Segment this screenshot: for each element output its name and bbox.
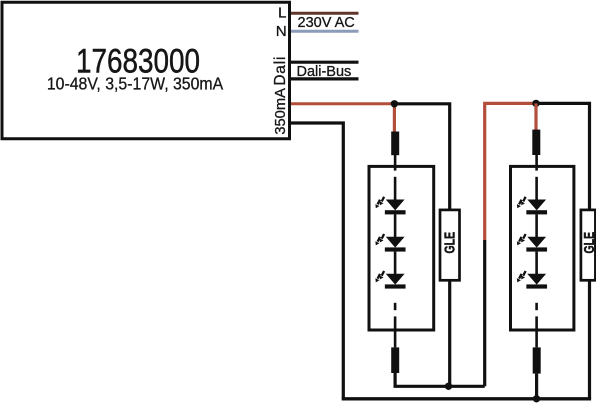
wire GLE1 bottom stub [448, 279, 451, 386]
node A junction [391, 100, 398, 107]
GLE1 component [440, 210, 460, 280]
node B junction [532, 100, 539, 107]
wire D3 to fuse F2 (dashed exit) [394, 303, 397, 310]
U1 part number label 17683000 [76, 42, 200, 80]
wire 350mA+ output (red) from U1 to node A [291, 102, 394, 105]
fuse F3 [532, 130, 540, 155]
wire series link module1 to module2 (black lower part) [483, 240, 486, 386]
wire series link module1 to module2 (red upper part) [485, 103, 536, 240]
wire node B down to fuse F3 (red) [534, 103, 537, 131]
wire Dali-Bus lower [291, 77, 359, 80]
LED driver U1 box [2, 2, 290, 139]
svg-text:GLE: GLE [580, 232, 596, 254]
svg-text:N: N [276, 23, 287, 40]
fuse F2 [391, 347, 399, 373]
wire 350mA- return (black) from U1 down to bottom bus [291, 123, 343, 399]
GLE2 component [580, 210, 596, 280]
LED D1 [375, 197, 405, 215]
LED D2 [375, 234, 405, 252]
LED module 1 box [369, 166, 434, 330]
LED D3 [375, 271, 405, 289]
svg-text:10-48V, 3,5-17W, 350mA: 10-48V, 3,5-17W, 350mA [47, 74, 224, 94]
wire D1 to D2 [394, 214, 397, 237]
U1 pin label 350mA (rotated) [273, 88, 289, 135]
wire GLE2 bottom stub [588, 279, 591, 399]
node GLE1 bottom junction [445, 383, 452, 390]
bottom bus wire [342, 397, 591, 400]
U1 pin label Dali (rotated) [272, 56, 289, 86]
svg-text:230V AC: 230V AC [298, 15, 355, 31]
wire L phase (brown) [291, 12, 359, 15]
wire F1 to LED module 1 (dashed entry) [394, 155, 397, 171]
svg-text:L: L [278, 5, 286, 22]
fuse F1 [391, 132, 399, 156]
wire D5 to D6 [535, 252, 538, 275]
LED D6 [517, 271, 547, 289]
LED D5 [517, 234, 547, 252]
svg-text:GLE: GLE [440, 232, 457, 254]
wire module 1 bottom connector [395, 373, 485, 386]
node module 2 return junction [533, 395, 540, 402]
wire F3 to LED module 2 (dashed entry) [535, 155, 538, 171]
wire D4 to D5 [535, 214, 538, 237]
wire D2 to D3 [394, 252, 397, 275]
wire module 2 to bottom bus [535, 374, 538, 399]
wire D6 to fuse F4 (dashed exit) [535, 303, 538, 310]
fuse F4 [533, 347, 541, 373]
LED D4 [517, 197, 547, 215]
wire node A down to fuse F1 (red) [393, 104, 396, 133]
wire Dali-Bus upper [291, 61, 359, 64]
wire N neutral (blue) [291, 30, 359, 33]
wire node B to GLE2 branch (black) [536, 103, 590, 212]
U1 ratings label 10-48V, 3,5-17W, 350mA [47, 74, 224, 94]
LED module 2 box [511, 166, 574, 330]
svg-text:350mA: 350mA [273, 88, 289, 135]
wire node A to GLE1 branch (black) [394, 104, 449, 212]
svg-text:Dali: Dali [272, 56, 289, 86]
